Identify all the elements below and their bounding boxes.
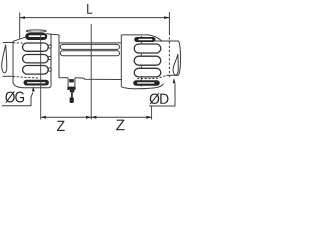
left sleeve left edge bbox=[13, 41, 24, 88]
right sleeve hoop 2 bbox=[134, 56, 161, 65]
central body top edge bbox=[59, 42, 121, 44]
arrowhead Z far right bbox=[146, 116, 151, 119]
left sleeve dark bottom ring bbox=[24, 80, 49, 86]
left sleeve bottom edge bbox=[24, 86, 52, 88]
hidden tube bottom edge right dashed bbox=[137, 76, 166, 79]
right sleeve dark bottom ring slit bbox=[137, 82, 155, 83]
left sleeve right nub 3 bbox=[48, 68, 51, 71]
tube stub left bottom edge bbox=[3, 75, 14, 77]
arrowhead L left bbox=[20, 16, 25, 19]
right sleeve top edge bbox=[121, 35, 161, 41]
arrowhead Z center pointing left bbox=[91, 116, 96, 119]
left sleeve right nub 2 bbox=[48, 56, 51, 59]
tube stub right top edge bbox=[155, 40, 179, 42]
tube end teardrop left bbox=[2, 45, 7, 73]
left sleeve hoop 1 bbox=[23, 43, 49, 51]
tube stub left top edge bbox=[3, 42, 13, 44]
body slot 1 bbox=[60, 44, 119, 49]
leader underline ØD with riser bbox=[149, 84, 175, 107]
left sleeve top corner line bbox=[46, 33, 51, 35]
arrowhead L right bbox=[164, 16, 169, 19]
central body bottom edge left part bbox=[59, 77, 68, 79]
drain valve neck bbox=[70, 90, 75, 92]
Z dimension line bbox=[41, 116, 152, 118]
label Z left bbox=[57, 121, 65, 131]
drain valve inner bar bbox=[69, 79, 74, 82]
label ØD D bbox=[160, 94, 168, 104]
tube stub right end cap bbox=[179, 41, 181, 75]
left sleeve right nub 1 bbox=[48, 45, 51, 48]
dimension L line bbox=[20, 17, 170, 19]
drain valve stem bbox=[71, 92, 73, 97]
label Z right bbox=[116, 120, 124, 131]
label ØD Ø bbox=[150, 93, 160, 104]
Z extension line right bbox=[151, 106, 153, 120]
right sleeve dark top ring bbox=[134, 37, 155, 42]
Z extension line center bbox=[90, 24, 92, 120]
right sleeve seam line bbox=[140, 36, 142, 87]
neck top edge left bbox=[51, 33, 59, 36]
right sleeve bottom edge bbox=[121, 83, 163, 88]
dimension L extension line left bbox=[19, 13, 21, 39]
drain valve side right bbox=[74, 78, 76, 87]
central body left edge bbox=[58, 35, 60, 78]
drain valve bottom blob bbox=[70, 97, 74, 103]
leader underline ØG with riser bbox=[2, 92, 33, 105]
label ØG Ø bbox=[5, 91, 15, 102]
arrowhead Z far left bbox=[41, 116, 46, 119]
hidden tube top edge left dashed bbox=[13, 42, 25, 45]
tube end teardrop right bbox=[173, 54, 178, 75]
left sleeve dark top ring bbox=[25, 33, 47, 40]
arrowhead Z center pointing right bbox=[86, 116, 91, 119]
dimension L extension line right dashed through part bbox=[168, 33, 170, 79]
right sleeve dark top ring slit bbox=[138, 39, 152, 41]
left sleeve hoop 3 bbox=[23, 66, 49, 75]
central body bottom edge mid part bbox=[75, 78, 122, 80]
left sleeve hoop 2 bbox=[23, 55, 49, 63]
arrowhead ØD leader up bbox=[173, 78, 176, 83]
label ØG G bbox=[15, 92, 24, 103]
left sleeve dark bottom ring slit bbox=[27, 82, 46, 83]
left sleeve top rim bbox=[26, 30, 46, 32]
hidden tube bottom edge left dashed bbox=[13, 77, 39, 78]
left sleeve top slant edge bbox=[13, 37, 25, 41]
right sleeve dark bottom ring bbox=[133, 80, 160, 85]
left sleeve right edge bbox=[50, 34, 52, 86]
right sleeve left edge bbox=[120, 35, 122, 87]
drain valve head bar bbox=[67, 87, 75, 90]
arrowhead ØG leader up bbox=[32, 86, 35, 91]
tube stub right bottom edge bbox=[166, 74, 178, 76]
body slot 2 bbox=[60, 51, 119, 56]
Z extension line left bbox=[40, 32, 42, 120]
right sleeve hoop 3 bbox=[134, 68, 161, 77]
drain valve side left bbox=[67, 78, 69, 87]
dimension L extension line right solid bbox=[168, 12, 170, 33]
right sleeve hoop 1 bbox=[134, 44, 161, 53]
left sleeve dark top ring slit bbox=[29, 35, 46, 37]
label L bbox=[87, 4, 92, 14]
